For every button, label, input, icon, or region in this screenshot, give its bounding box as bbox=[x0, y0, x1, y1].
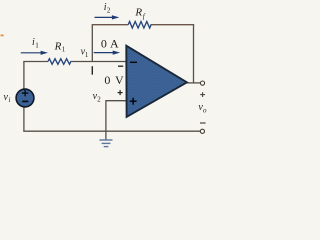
svg-text:1: 1 bbox=[85, 51, 89, 59]
wire: top horizontal left of Rf bbox=[92, 24, 129, 26]
source minus sign bbox=[22, 100, 28, 102]
svg-text:2: 2 bbox=[97, 95, 101, 103]
stray orange mark left edge bbox=[1, 35, 4, 37]
svg-text:1: 1 bbox=[62, 46, 66, 54]
op-amp U1 triangle bbox=[126, 46, 187, 117]
wire: top-left horizontal to R1 bbox=[23, 61, 48, 63]
0V annotation minus bbox=[118, 65, 123, 67]
svg-text:0: 0 bbox=[101, 37, 107, 51]
wire: op-amp output to terminal bbox=[187, 82, 201, 84]
resistor R1 bbox=[48, 59, 72, 65]
wire: left vertical from top-left corner through source to bottom-left corner bbox=[23, 62, 25, 132]
source plus sign bbox=[22, 90, 29, 96]
current arrow i2 bbox=[95, 15, 120, 19]
output minus bbox=[200, 122, 206, 124]
svg-text:i: i bbox=[9, 96, 11, 104]
svg-text:1: 1 bbox=[35, 42, 39, 50]
svg-text:0: 0 bbox=[104, 73, 110, 87]
svg-text:2: 2 bbox=[107, 6, 111, 14]
wire: right feedback vertical down bbox=[193, 25, 195, 83]
ground bbox=[99, 140, 112, 147]
op-amp non-inverting input plus sign bbox=[130, 98, 137, 105]
svg-text:A: A bbox=[110, 37, 119, 51]
current arrow 0A into inverting input bbox=[94, 51, 120, 55]
output terminal bottom bbox=[200, 129, 204, 133]
wire: ground stem vertical bbox=[105, 100, 107, 139]
wire: R1 to op-amp inverting input bbox=[72, 61, 128, 63]
wire: bottom horizontal bbox=[23, 130, 200, 132]
resistor Rf bbox=[128, 22, 152, 29]
svg-text:V: V bbox=[115, 73, 124, 87]
current arrow i1 bbox=[21, 51, 48, 55]
node v1 tick below wire bbox=[91, 66, 93, 75]
wire: non-inverting input horizontal bbox=[106, 100, 129, 102]
wire: feedback vertical up from node v1 bbox=[91, 25, 93, 62]
svg-text:o: o bbox=[203, 106, 207, 114]
svg-text:R: R bbox=[134, 7, 142, 19]
svg-text:R: R bbox=[54, 40, 62, 52]
output plus bbox=[200, 92, 205, 97]
op-amp inverting input minus sign bbox=[130, 61, 137, 63]
wire: top horizontal right of Rf bbox=[152, 24, 194, 26]
0V annotation plus bbox=[118, 90, 123, 95]
source vi circle bbox=[16, 89, 34, 107]
output terminal top bbox=[200, 81, 204, 85]
